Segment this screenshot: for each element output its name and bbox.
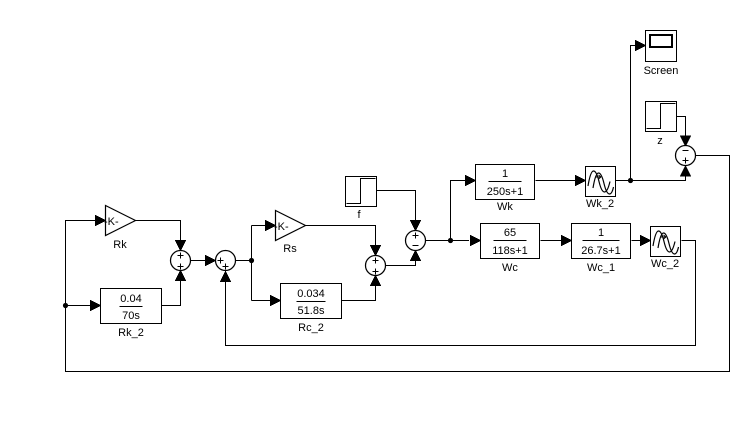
svg-text:Wk: Wk (497, 201, 513, 213)
svg-text:51.8s: 51.8s (298, 305, 325, 317)
svg-text:118s+1: 118s+1 (492, 245, 528, 257)
svg-text:-K-: -K- (104, 216, 119, 228)
svg-text:Wc_1: Wc_1 (587, 262, 615, 274)
step source f (346, 177, 377, 222)
node junction on left rail feeding Rk_2 (63, 303, 68, 308)
wire Wc_2 input arrowhead (641, 236, 651, 246)
sum S5 inputs - top + bottom (676, 146, 696, 166)
wire branch up to Screen input (631, 46, 636, 181)
wire gain Rk output to sum S1 top (136, 221, 181, 241)
wire S3 bottom arrowhead (371, 276, 381, 286)
sum S3 inputs + top + bottom (366, 256, 386, 276)
wire sum S1 output to sum S2 left (191, 260, 206, 262)
wire S2 left arrowhead (206, 256, 216, 266)
svg-text:Rk: Rk (113, 239, 127, 251)
wire S1 bottom arrowhead (176, 271, 186, 281)
node junction on Wk_2 output feeding Screen (628, 178, 633, 183)
wire gain Rs output to sum S3 top (306, 226, 376, 246)
wire Rc_2 output up to sum S3 bottom (342, 286, 376, 301)
wire Wk_2 input arrowhead (576, 176, 586, 186)
svg-text:-K-: -K- (274, 221, 289, 233)
scope Screen (644, 31, 679, 78)
wire sum S4 output to Wc input (426, 240, 470, 242)
wire sum S2 output to branch node (236, 260, 252, 262)
svg-text:1: 1 (598, 227, 604, 239)
transfer function Rc_2 value 0.034/51.8s (281, 284, 342, 335)
wire branch to Rc_2 input (252, 300, 271, 302)
wire Rc_2 input arrowhead (271, 296, 281, 306)
svg-text:Rs: Rs (283, 243, 297, 255)
svg-text:Screen: Screen (644, 65, 679, 77)
wire S1 top arrowhead (176, 241, 186, 251)
transfer function Wc_1 value 1/(26.7s+1) (572, 224, 631, 275)
gain Rk (104, 206, 136, 252)
wire Rk_2 input arrowhead (91, 301, 101, 311)
wire branch vertical to Rs row and Rc_2 row (251, 226, 253, 301)
wire step f output down to sum S4 top (377, 191, 416, 221)
wire Wc_1 output to Wc_2 input (632, 240, 641, 242)
svg-text:Wc: Wc (502, 262, 518, 274)
svg-text:26.7s+1: 26.7s+1 (581, 245, 620, 257)
transport delay Wk_2 (586, 167, 616, 211)
svg-text:1: 1 (502, 168, 508, 180)
wire Screen input arrowhead (636, 41, 646, 51)
wire branch up to Wk input (451, 181, 466, 241)
wire S3 top arrowhead (371, 246, 381, 256)
svg-text:0.04: 0.04 (120, 293, 141, 305)
wire S4 bottom arrowhead (411, 251, 421, 261)
wire Wk input arrowhead (466, 176, 476, 186)
wire Wc input arrowhead (471, 236, 481, 246)
wire S2 bottom arrowhead (221, 272, 231, 282)
wire Rk input arrowhead (96, 216, 106, 226)
transfer function Wk value 1/(250s+1) (476, 165, 535, 214)
wire sum S3 output up to sum S4 bottom (386, 261, 416, 266)
svg-text:Rk_2: Rk_2 (118, 327, 144, 339)
wire branch left rail to Rk_2 input (66, 305, 91, 307)
node junction after S4 feeding Wk and Wc (448, 238, 453, 243)
node junction after S2 feeding Rs and Rc_2 (249, 258, 254, 263)
sum S4 inputs + top - bottom (406, 231, 426, 251)
wire S5 top arrowhead (681, 136, 691, 146)
wire Wc_2 output feedback down, along lower rail, up to sum S2 bottom (226, 241, 696, 346)
step source z (646, 102, 677, 148)
wire branch to gain Rs input (252, 225, 266, 227)
wire Wc output to Wc_1 input (541, 240, 562, 242)
wire main feedback loop from sum S5 output right, down, along bottom, up left rail to gain Rk input (66, 156, 730, 372)
wire step z output down to sum S5 top (677, 117, 686, 136)
svg-text:70s: 70s (122, 310, 140, 322)
svg-text:Wc_2: Wc_2 (651, 258, 679, 270)
wire Rs input arrowhead (266, 221, 276, 231)
sum S1 inputs + top + bottom (171, 251, 191, 271)
svg-text:z: z (657, 135, 663, 147)
transport delay Wc_2 (651, 227, 681, 271)
svg-text:Rc_2: Rc_2 (298, 322, 324, 334)
wire S4 top arrowhead (411, 221, 421, 231)
sum S2 inputs + left + bottom (216, 251, 236, 271)
svg-text:65: 65 (504, 227, 516, 239)
wire Wc_1 input arrowhead (562, 236, 572, 246)
transfer function Rk_2 value 0.04/70s (101, 289, 162, 340)
svg-text:0.034: 0.034 (297, 288, 325, 300)
wire Wk output to Wk_2 input (536, 180, 576, 182)
gain Rs (274, 211, 306, 256)
transfer function Wc value 65/(118s+1) (481, 224, 540, 275)
svg-text:250s+1: 250s+1 (487, 186, 523, 198)
wire Wk_2 output to sum S5 bottom (616, 177, 686, 181)
svg-text:Wk_2: Wk_2 (586, 198, 614, 210)
wire Rk_2 output up to sum S1 bottom (162, 281, 181, 306)
wire S5 bottom arrowhead (681, 166, 691, 176)
